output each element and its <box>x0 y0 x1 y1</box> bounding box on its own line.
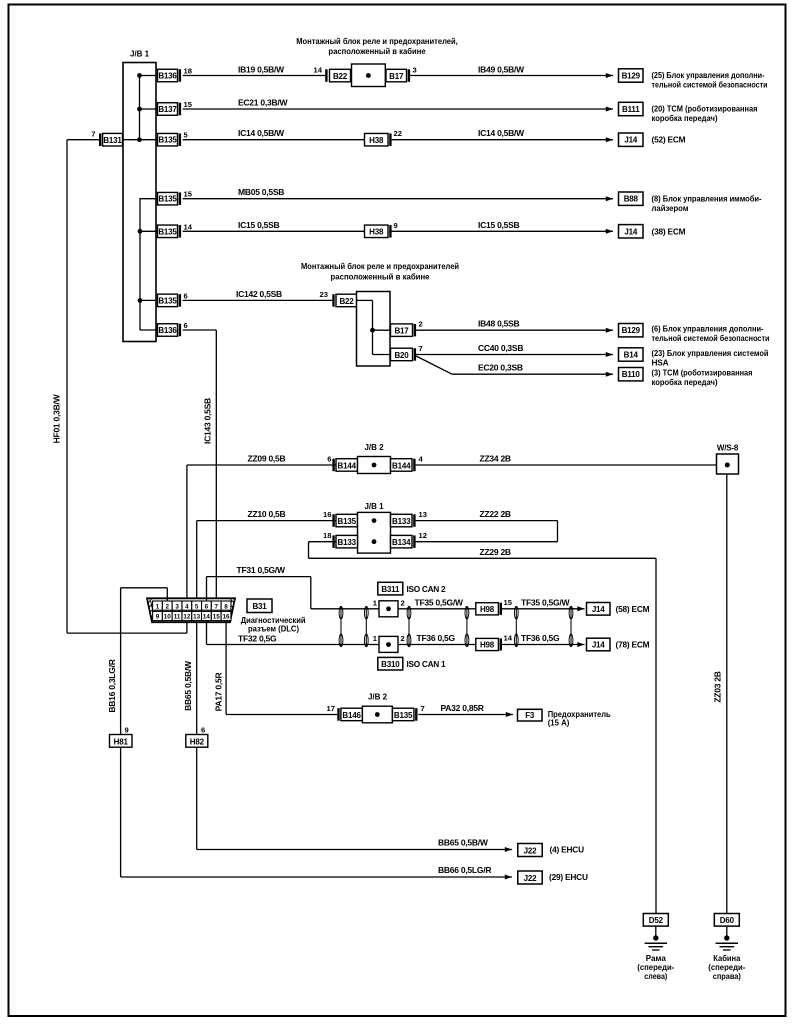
svg-text:IB49 0,5B/W: IB49 0,5B/W <box>478 65 525 75</box>
svg-text:12: 12 <box>183 614 191 621</box>
svg-text:B22: B22 <box>339 297 354 306</box>
svg-text:12: 12 <box>419 531 427 540</box>
svg-text:B17: B17 <box>389 72 404 81</box>
svg-text:J22: J22 <box>524 846 537 855</box>
svg-text:ZZ22 2B: ZZ22 2B <box>480 509 511 519</box>
svg-text:справа): справа) <box>713 971 741 981</box>
svg-text:(38) ECM: (38) ECM <box>652 226 686 236</box>
svg-text:J14: J14 <box>624 136 637 145</box>
svg-text:B144: B144 <box>338 462 357 471</box>
svg-text:B135: B135 <box>158 195 177 204</box>
svg-text:лайзером: лайзером <box>652 203 689 213</box>
svg-text:TF36 0,5G: TF36 0,5G <box>417 633 456 643</box>
svg-text:5: 5 <box>195 603 199 610</box>
svg-text:BB65 0,5B/W: BB65 0,5B/W <box>438 838 489 848</box>
svg-text:B110: B110 <box>622 370 641 379</box>
svg-text:(8) Блок управления иммоби-: (8) Блок управления иммоби- <box>652 193 762 203</box>
svg-text:15: 15 <box>213 614 221 621</box>
svg-text:J/B 2: J/B 2 <box>368 693 388 702</box>
svg-text:2: 2 <box>401 599 405 608</box>
svg-text:14: 14 <box>314 66 323 75</box>
svg-text:7: 7 <box>214 603 218 610</box>
svg-text:B111: B111 <box>622 105 640 114</box>
svg-text:B136: B136 <box>158 72 177 81</box>
svg-text:10: 10 <box>164 614 172 621</box>
svg-text:коробка передач): коробка передач) <box>652 377 718 387</box>
svg-text:16: 16 <box>323 510 331 519</box>
svg-text:J/B 2: J/B 2 <box>364 443 384 452</box>
svg-text:14: 14 <box>184 222 193 231</box>
svg-text:15: 15 <box>184 100 193 109</box>
svg-text:J22: J22 <box>524 874 537 883</box>
svg-text:B137: B137 <box>158 105 177 114</box>
svg-text:H38: H38 <box>369 228 384 237</box>
svg-text:1: 1 <box>156 603 160 610</box>
svg-text:TF35 0,5G/W: TF35 0,5G/W <box>415 598 464 608</box>
svg-text:7: 7 <box>91 130 95 139</box>
svg-text:(29) EHCU: (29) EHCU <box>549 872 588 882</box>
svg-text:(78) ECM: (78) ECM <box>616 640 650 650</box>
svg-text:TF35 0,5G/W: TF35 0,5G/W <box>521 598 570 608</box>
svg-text:6: 6 <box>205 603 209 610</box>
svg-text:ZZ09 0,5B: ZZ09 0,5B <box>248 453 286 463</box>
svg-text:B134: B134 <box>392 538 411 547</box>
svg-text:H81: H81 <box>114 737 129 746</box>
svg-text:6: 6 <box>201 726 205 735</box>
svg-text:7: 7 <box>421 704 425 713</box>
svg-text:15: 15 <box>504 598 513 607</box>
svg-text:ISO CAN 1: ISO CAN 1 <box>407 659 446 669</box>
svg-text:Монтажный блок реле и предохра: Монтажный блок реле и предохранителей <box>301 261 459 271</box>
svg-text:2: 2 <box>166 603 170 610</box>
svg-text:(20) TCM (роботизированная: (20) TCM (роботизированная <box>652 104 758 114</box>
svg-text:9: 9 <box>156 614 160 621</box>
svg-text:ZZ29 2B: ZZ29 2B <box>480 547 511 557</box>
svg-text:BB65 0,5B/W: BB65 0,5B/W <box>183 660 193 711</box>
svg-text:16: 16 <box>223 614 231 621</box>
svg-text:расположенный в кабине: расположенный в кабине <box>331 272 430 282</box>
svg-text:разъем (DLC): разъем (DLC) <box>248 624 299 634</box>
svg-text:(23) Блок управления системой: (23) Блок управления системой <box>652 348 769 358</box>
svg-text:J14: J14 <box>592 605 605 614</box>
svg-text:IC15 0,5SB: IC15 0,5SB <box>478 220 520 230</box>
svg-text:3: 3 <box>413 66 417 75</box>
svg-text:14: 14 <box>504 634 513 643</box>
svg-text:(25) Блок управления дополни-: (25) Блок управления дополни- <box>652 70 765 80</box>
svg-text:HSA: HSA <box>652 358 669 368</box>
svg-text:B135: B135 <box>394 711 413 720</box>
svg-text:18: 18 <box>323 531 331 540</box>
svg-text:(6) Блок управления дополни-: (6) Блок управления дополни- <box>652 324 764 334</box>
svg-text:B135: B135 <box>338 517 357 526</box>
svg-text:H98: H98 <box>480 605 495 614</box>
svg-text:IB48 0,5SB: IB48 0,5SB <box>478 319 520 329</box>
svg-text:13: 13 <box>193 614 201 621</box>
svg-text:6: 6 <box>327 454 331 463</box>
svg-text:8: 8 <box>224 603 228 610</box>
svg-text:2: 2 <box>419 320 423 329</box>
svg-text:6: 6 <box>184 321 188 330</box>
svg-text:ZZ03 2B: ZZ03 2B <box>713 671 723 702</box>
svg-text:B129: B129 <box>622 326 641 335</box>
svg-text:B310: B310 <box>381 660 400 669</box>
svg-text:(58) ECM: (58) ECM <box>616 604 650 614</box>
svg-text:IB19 0,5B/W: IB19 0,5B/W <box>238 65 285 75</box>
svg-text:B131: B131 <box>103 136 122 145</box>
svg-text:B88: B88 <box>624 195 639 204</box>
svg-text:PA17 0,5R: PA17 0,5R <box>213 673 223 712</box>
svg-text:(4) EHCU: (4) EHCU <box>550 845 585 855</box>
svg-text:J14: J14 <box>592 641 605 650</box>
svg-text:TF31 0,5G/W: TF31 0,5G/W <box>237 565 286 575</box>
svg-text:CC40 0,3SB: CC40 0,3SB <box>478 343 523 353</box>
svg-text:IC14 0,5B/W: IC14 0,5B/W <box>238 128 285 138</box>
svg-text:3: 3 <box>175 603 179 610</box>
svg-text:IC14 0,5B/W: IC14 0,5B/W <box>478 128 525 138</box>
svg-text:J14: J14 <box>624 227 637 236</box>
svg-text:23: 23 <box>320 290 328 299</box>
svg-text:IC143 0,5SB: IC143 0,5SB <box>203 398 213 444</box>
svg-text:Монтажный блок реле и предохра: Монтажный блок реле и предохранителей, <box>296 36 458 46</box>
svg-text:ISO CAN 2: ISO CAN 2 <box>407 584 446 594</box>
svg-text:9: 9 <box>125 726 129 735</box>
svg-text:(15 А): (15 А) <box>548 718 570 728</box>
svg-text:7: 7 <box>419 344 423 353</box>
svg-text:HF01 0,3B/W: HF01 0,3B/W <box>52 393 62 443</box>
svg-text:18: 18 <box>184 67 192 76</box>
svg-text:BB66 0,5LG/R: BB66 0,5LG/R <box>438 865 491 875</box>
svg-text:2: 2 <box>401 634 405 643</box>
svg-text:EC20 0,3SB: EC20 0,3SB <box>478 363 523 373</box>
svg-text:D52: D52 <box>649 916 664 925</box>
svg-text:9: 9 <box>394 221 398 230</box>
svg-text:IC15 0,5SB: IC15 0,5SB <box>238 220 280 230</box>
svg-text:ZZ34 2B: ZZ34 2B <box>480 453 511 463</box>
svg-text:IC142 0,5SB: IC142 0,5SB <box>236 289 282 299</box>
svg-text:B136: B136 <box>158 326 177 335</box>
svg-text:(52) ECM: (52) ECM <box>652 135 686 145</box>
svg-text:J/B 1: J/B 1 <box>130 50 150 59</box>
svg-text:11: 11 <box>174 614 181 621</box>
svg-text:ZZ10 0,5B: ZZ10 0,5B <box>248 509 286 519</box>
svg-text:15: 15 <box>184 190 193 199</box>
svg-text:H38: H38 <box>369 136 384 145</box>
svg-text:B17: B17 <box>394 327 409 336</box>
svg-text:TF32 0,5G: TF32 0,5G <box>238 634 277 644</box>
svg-text:BB16 0,3LG/R: BB16 0,3LG/R <box>107 659 117 712</box>
svg-text:F3: F3 <box>525 711 535 720</box>
svg-text:B22: B22 <box>333 72 348 81</box>
svg-text:B129: B129 <box>622 72 641 81</box>
svg-text:H98: H98 <box>480 641 495 650</box>
svg-text:13: 13 <box>419 510 427 519</box>
svg-text:B311: B311 <box>381 585 400 594</box>
svg-text:B135: B135 <box>158 296 177 305</box>
svg-text:17: 17 <box>327 704 335 713</box>
svg-text:4: 4 <box>185 603 189 610</box>
svg-text:B144: B144 <box>392 462 411 471</box>
svg-text:(3) TCM (роботизированная: (3) TCM (роботизированная <box>652 368 753 378</box>
svg-text:B135: B135 <box>158 227 177 236</box>
svg-text:PA32 0,85R: PA32 0,85R <box>441 703 484 713</box>
svg-text:6: 6 <box>184 291 188 300</box>
svg-text:H82: H82 <box>190 737 205 746</box>
svg-text:J/B 1: J/B 1 <box>364 502 384 511</box>
svg-text:B135: B135 <box>158 136 177 145</box>
svg-text:MB05 0,5SB: MB05 0,5SB <box>238 187 284 197</box>
svg-text:B133: B133 <box>392 517 411 526</box>
svg-text:TF36 0,5G: TF36 0,5G <box>521 633 560 643</box>
svg-text:расположенный в кабине: расположенный в кабине <box>328 46 426 56</box>
svg-text:B146: B146 <box>342 711 361 720</box>
svg-text:коробка передач): коробка передач) <box>652 113 718 123</box>
svg-text:тельной системой безопасности: тельной системой безопасности <box>652 333 770 343</box>
svg-text:B14: B14 <box>624 351 639 360</box>
svg-text:тельной системой безопасности: тельной системой безопасности <box>652 80 768 90</box>
svg-text:слева): слева) <box>644 971 667 981</box>
svg-text:B20: B20 <box>394 351 409 360</box>
svg-text:22: 22 <box>394 129 402 138</box>
svg-text:14: 14 <box>203 614 211 621</box>
svg-text:W/S-8: W/S-8 <box>717 444 739 453</box>
svg-text:EC21 0,3B/W: EC21 0,3B/W <box>238 98 288 108</box>
svg-text:B133: B133 <box>338 538 357 547</box>
svg-text:B31: B31 <box>252 602 267 611</box>
svg-text:D60: D60 <box>720 916 735 925</box>
